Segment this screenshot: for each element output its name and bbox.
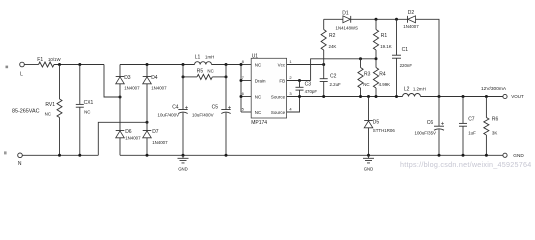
node bus pin6 xyxy=(240,95,243,98)
svg-text:NC: NC xyxy=(45,111,51,116)
svg-text:+: + xyxy=(185,106,189,112)
svg-text:L: L xyxy=(20,72,23,78)
pin 2 FB wire xyxy=(287,80,311,82)
inductor L2 1.2mH xyxy=(403,87,426,97)
svg-text:10uF/400V: 10uF/400V xyxy=(192,112,214,117)
svg-text:3K: 3K xyxy=(492,131,497,136)
svg-text:C3: C3 xyxy=(305,81,312,87)
svg-text:GND: GND xyxy=(513,153,524,158)
svg-text:D4: D4 xyxy=(151,75,158,81)
svg-text:C2: C2 xyxy=(330,74,337,80)
node junction F1-RV1 xyxy=(58,63,61,66)
wire bridge column D3/D6 xyxy=(119,65,121,156)
svg-text:470pF: 470pF xyxy=(305,89,318,94)
svg-text:R1: R1 xyxy=(381,33,388,39)
node R3 top xyxy=(359,57,362,60)
svg-text:220nF: 220nF xyxy=(400,63,413,68)
svg-text:Source: Source xyxy=(271,110,286,115)
node source D5 xyxy=(367,95,370,98)
svg-text:1N4007: 1N4007 xyxy=(151,86,167,91)
capacitor C2 2.2uF xyxy=(320,65,341,97)
node RV1 bottom xyxy=(58,154,61,157)
node C2 bottom xyxy=(322,95,325,98)
resistor R1 19.1K xyxy=(373,19,391,59)
pin 8 xyxy=(241,64,251,66)
pin 7 xyxy=(241,80,251,82)
wire L feed to bridge xyxy=(104,65,120,98)
svg-text:C4: C4 xyxy=(172,104,179,110)
node CX1 bottom xyxy=(78,154,81,157)
node FB/C3 xyxy=(298,79,301,82)
pin 4 Source riser xyxy=(287,97,300,113)
svg-text:1N4148WS: 1N4148WS xyxy=(336,25,359,30)
svg-text:1N4007: 1N4007 xyxy=(124,86,140,91)
svg-text:RV1: RV1 xyxy=(45,102,55,108)
svg-text:1N4007: 1N4007 xyxy=(403,24,419,29)
svg-text:N: N xyxy=(18,161,22,167)
node R1/R4 junction xyxy=(375,57,378,60)
resistor R5 NC xyxy=(183,69,226,80)
svg-text:R6: R6 xyxy=(492,117,499,123)
svg-text:NC: NC xyxy=(255,110,262,115)
svg-text:Drain: Drain xyxy=(255,78,266,83)
node C6 gnd xyxy=(438,154,441,157)
svg-text:C7: C7 xyxy=(468,117,475,123)
U1 pin names xyxy=(255,62,286,115)
wire top loop xyxy=(324,19,439,96)
svg-text:10uF/400V: 10uF/400V xyxy=(158,112,180,117)
svg-text:D5: D5 xyxy=(373,119,380,125)
node C6 top xyxy=(438,95,441,98)
wire L to F1 xyxy=(24,64,38,66)
resistor R2 24K xyxy=(321,19,336,64)
resistor F1 10/1W xyxy=(37,57,61,67)
svg-text:12V/300mA: 12V/300mA xyxy=(481,86,507,92)
pin 5 xyxy=(241,111,251,113)
wire N rail xyxy=(22,154,98,156)
svg-text:1uF: 1uF xyxy=(468,131,476,136)
FB jog up to divider line xyxy=(311,59,376,81)
svg-text:C5: C5 xyxy=(212,104,219,110)
ground symbol left xyxy=(178,155,189,171)
capacitor CX1 NC xyxy=(76,65,94,156)
svg-text:STTH1R06: STTH1R06 xyxy=(373,128,396,133)
svg-text:R3: R3 xyxy=(364,72,371,78)
svg-text:R2: R2 xyxy=(329,33,336,39)
node C7 gnd xyxy=(462,154,465,157)
svg-text:VOUT: VOUT xyxy=(511,94,524,99)
inductor L1 1mH xyxy=(195,55,215,65)
node C4 top xyxy=(182,63,185,66)
node R6 gnd xyxy=(485,154,488,157)
capacitor C4 10uF/400V xyxy=(182,65,184,156)
node bus pin8 xyxy=(240,63,243,66)
pin 3 Source wire xyxy=(287,96,403,98)
node C7 top xyxy=(462,95,465,98)
node C1 top xyxy=(395,18,398,21)
op-amp U1 MP174 (regulator IC) xyxy=(251,53,286,126)
ground symbol middle xyxy=(363,155,374,171)
svg-text:D1: D1 xyxy=(342,11,349,17)
svg-text:GND: GND xyxy=(364,166,374,171)
node source C1 xyxy=(395,95,398,98)
svg-text:1N4007: 1N4007 xyxy=(152,140,168,145)
svg-text:1mH: 1mH xyxy=(205,55,214,60)
svg-text:CX1: CX1 xyxy=(84,100,94,106)
svg-text:R4: R4 xyxy=(379,72,386,78)
edge speck near N xyxy=(4,151,7,154)
node source R4 xyxy=(375,95,378,98)
svg-text:85-265VAC: 85-265VAC xyxy=(12,108,40,114)
capacitor C7 1uF xyxy=(459,97,476,156)
node R5 left xyxy=(182,75,185,78)
node C3 bottom / pin4 xyxy=(298,95,301,98)
node D4 top xyxy=(146,63,149,66)
svg-text:100uF/35V: 100uF/35V xyxy=(415,130,437,135)
svg-text:FB: FB xyxy=(279,78,285,83)
node R6 top xyxy=(485,95,488,98)
svg-text:19.1K: 19.1K xyxy=(380,44,392,49)
diode D4 1N4007 xyxy=(143,75,167,90)
svg-text:R5: R5 xyxy=(197,69,204,75)
node bridge AC2 xyxy=(146,121,149,124)
node C5 gnd xyxy=(225,154,228,157)
capacitor C6 100uF/35V xyxy=(438,97,440,156)
node bus pin7 xyxy=(240,79,243,82)
svg-text:+: + xyxy=(228,106,232,112)
capacitor C3 470pF xyxy=(296,81,318,97)
terminal N xyxy=(18,153,23,167)
wire DC+ rail xyxy=(120,64,241,66)
svg-text:C6: C6 xyxy=(427,120,434,126)
node C4 gnd xyxy=(182,154,185,157)
ground rail xyxy=(120,154,503,156)
wire bridge column D4/D7 xyxy=(146,65,148,156)
resistor R4 4.99K xyxy=(373,59,390,97)
svg-text:4.99K: 4.99K xyxy=(379,82,391,87)
svg-text:L2: L2 xyxy=(404,87,410,93)
node C5 top xyxy=(225,63,228,66)
capacitor C1 220nF xyxy=(392,19,412,96)
U1 left pin bus xyxy=(240,65,242,113)
diode D5 STTH1R06 xyxy=(364,97,395,156)
svg-text:NC: NC xyxy=(84,110,90,115)
svg-text:1.2mH: 1.2mH xyxy=(413,87,426,92)
node bridge AC1 xyxy=(119,96,122,99)
svg-text:24K: 24K xyxy=(329,44,337,49)
node junction CX1 top xyxy=(78,63,81,66)
edge speck near L xyxy=(6,66,9,69)
terminal GND xyxy=(503,153,524,158)
svg-text:+: + xyxy=(441,121,445,127)
resistor R3 NC xyxy=(358,59,371,97)
pin 1 Vcc wire xyxy=(287,64,324,66)
svg-text:https://blog.csdn.net/weixin_4: https://blog.csdn.net/weixin_45925764 xyxy=(400,160,532,169)
svg-text:L1: L1 xyxy=(195,55,201,61)
node R1 top xyxy=(375,18,378,21)
node D5 gnd xyxy=(367,154,370,157)
svg-text:1N4007: 1N4007 xyxy=(125,136,141,141)
terminal L xyxy=(20,62,25,77)
wire AC top rail xyxy=(54,64,104,66)
svg-text:F1: F1 xyxy=(37,57,43,63)
svg-text:2.2uF: 2.2uF xyxy=(330,82,342,87)
svg-text:MP174: MP174 xyxy=(251,120,267,126)
capacitor C5 10uF/400V xyxy=(225,65,227,156)
diode D2 1N4007 xyxy=(403,10,419,29)
diode D3 1N4007 xyxy=(116,75,140,90)
svg-text:C1: C1 xyxy=(402,47,409,53)
node D7 bottom xyxy=(146,154,149,157)
varistor RV1 NC xyxy=(45,65,62,156)
resistor R6 3K xyxy=(484,97,499,156)
pin 6 xyxy=(241,96,251,98)
svg-text:Source: Source xyxy=(271,94,286,99)
svg-text:U1: U1 xyxy=(252,53,259,59)
svg-text:GND: GND xyxy=(178,166,188,171)
wire N feed to bridge xyxy=(98,122,147,155)
diode D6 1N4007 xyxy=(116,129,141,140)
svg-text:NC: NC xyxy=(207,69,213,74)
svg-text:D6: D6 xyxy=(125,129,132,135)
svg-text:D3: D3 xyxy=(124,75,131,81)
wire output rail xyxy=(421,96,503,98)
diode D1 1N4148WS xyxy=(336,11,359,31)
svg-text:10/1W: 10/1W xyxy=(48,57,62,62)
svg-text:D2: D2 xyxy=(408,10,415,16)
diode D7 1N4007 xyxy=(143,129,168,145)
svg-text:NC: NC xyxy=(363,82,369,87)
svg-text:NC: NC xyxy=(255,94,262,99)
node R5 right xyxy=(225,75,228,78)
svg-text:Vcc: Vcc xyxy=(278,62,286,67)
svg-text:NC: NC xyxy=(255,62,262,67)
terminal VOUT xyxy=(503,94,524,99)
svg-text:D7: D7 xyxy=(152,129,159,135)
node source R3 xyxy=(359,95,362,98)
node Vcc / R2 / C2 xyxy=(322,63,325,66)
